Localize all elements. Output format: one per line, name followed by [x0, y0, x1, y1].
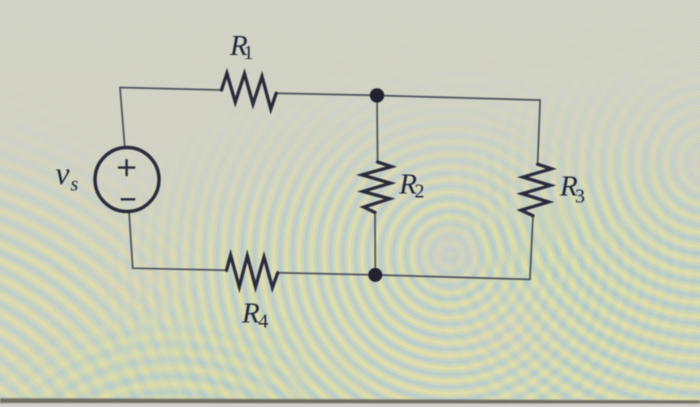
screen bottom bezel dark band [0, 398, 700, 404]
label vs [56, 156, 79, 196]
svg-text:2: 2 [415, 181, 425, 203]
resistor R4 [227, 255, 278, 287]
wire left-upper [120, 88, 125, 148]
resistor R1 [222, 73, 277, 109]
wire bottom-left [129, 211, 227, 270]
svg-text:s: s [71, 174, 79, 196]
wire top-right [276, 93, 540, 164]
svg-text:v: v [56, 156, 70, 191]
svg-text:R: R [241, 298, 260, 330]
label R2 [398, 169, 424, 203]
svg-text:4: 4 [258, 311, 268, 333]
resistor R3 [521, 164, 551, 216]
screen bottom light strip [0, 403, 700, 407]
svg-text:3: 3 [575, 186, 585, 208]
wire R2 bottom [374, 213, 376, 268]
label R3 [559, 171, 585, 208]
wire top-left [120, 88, 222, 91]
svg-text:1: 1 [244, 42, 254, 64]
label R1 [229, 30, 254, 64]
label R4 [241, 298, 268, 333]
resistor R2 [362, 162, 391, 213]
wire bottom-right [278, 273, 530, 280]
wire right-lower [530, 216, 533, 280]
wire R2 top [376, 95, 379, 162]
node B [368, 268, 382, 282]
node A [370, 88, 384, 102]
voltage source Vs [95, 148, 159, 212]
